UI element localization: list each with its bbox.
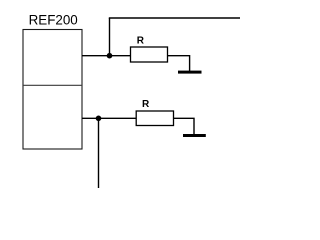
- resistor R1 body: [131, 47, 168, 62]
- wire: box pin2 to node B: [82, 117, 136, 119]
- svg-text:REF200: REF200: [29, 13, 78, 28]
- node A junction dot: [107, 53, 113, 59]
- ground symbol GND2: [183, 134, 206, 137]
- wire: R1 right to ground drop: [168, 56, 190, 71]
- ground symbol GND1: [178, 71, 202, 74]
- wire: node A up: [109, 18, 111, 56]
- IC U1 REF200 body: [23, 30, 82, 150]
- wire: box pin1 to node A: [82, 55, 131, 57]
- resistor R2 body: [136, 111, 173, 126]
- wire: node B down: [98, 118, 100, 188]
- wire: top rail to right edge: [109, 17, 240, 19]
- svg-text:R: R: [137, 36, 145, 47]
- svg-text:R: R: [142, 99, 150, 110]
- node B junction dot: [96, 116, 102, 122]
- wire: R2 right to ground drop: [174, 118, 195, 134]
- IC U1 internal divider: [23, 84, 82, 86]
